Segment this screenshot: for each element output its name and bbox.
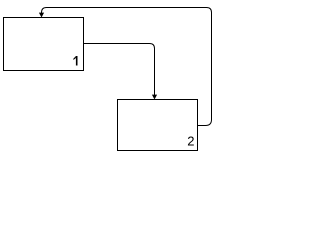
wire box1 right to box2 top bbox=[84, 44, 155, 96]
arrowhead into box 1 bbox=[39, 13, 44, 18]
label 1 bbox=[73, 56, 78, 66]
arrowhead into box 2 bbox=[152, 95, 157, 100]
box 2 bbox=[118, 100, 198, 151]
svg-text:2: 2 bbox=[187, 134, 194, 149]
box 1 bbox=[4, 18, 84, 71]
wire box2 right loop to box1 top bbox=[42, 8, 212, 126]
